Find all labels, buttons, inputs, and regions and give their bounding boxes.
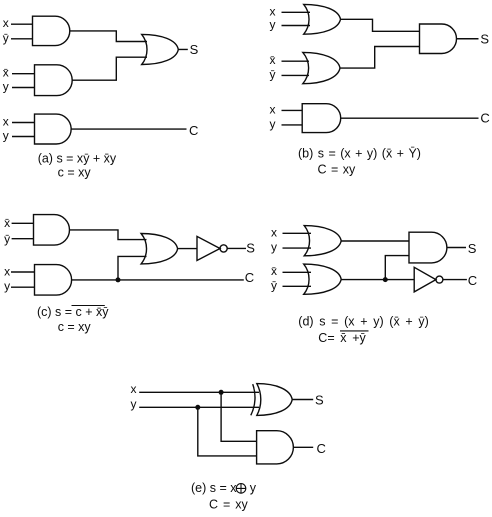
and-gate B3 bbox=[420, 24, 457, 54]
and-gate C2 bbox=[35, 265, 72, 296]
svg-text:(b) s = (x + y) (x̄ + Ȳ): (b) s = (x + y) (x̄ + Ȳ) bbox=[298, 146, 421, 160]
wire junction up to AND gate D3 bottom input bbox=[385, 256, 409, 280]
junction dot on y wire bbox=[195, 405, 200, 410]
wire x to A3 bbox=[12, 122, 35, 124]
and-gate A1 bbox=[33, 16, 70, 45]
wire E2 output to C bbox=[293, 446, 313, 448]
svg-text:C: C bbox=[317, 441, 326, 456]
svg-text:x̄: x̄ bbox=[3, 66, 9, 80]
wire C3 output to inverter C4 bbox=[178, 248, 197, 250]
wire y to B1 bbox=[282, 25, 311, 27]
wire C1 output to OR gate C3 top input bbox=[70, 230, 147, 240]
svg-text:x: x bbox=[270, 4, 276, 18]
svg-text:x: x bbox=[4, 264, 10, 278]
or-gate B2 bbox=[303, 52, 340, 83]
wire D4 output to C bbox=[443, 279, 467, 281]
svg-text:ȳ: ȳ bbox=[3, 31, 9, 45]
or-gate C3 bbox=[141, 234, 178, 264]
inverter D4 bubble bbox=[436, 276, 443, 283]
wire y to XOR gate E1 bbox=[139, 406, 259, 408]
wire x-bar to D2 bbox=[283, 271, 312, 273]
wire x to B4 bbox=[282, 109, 303, 111]
wire x junction down to AND gate E2 top input bbox=[221, 392, 257, 441]
xor-gate E1 body bbox=[257, 384, 292, 416]
wire y to A2 bbox=[12, 87, 35, 89]
svg-text:x: x bbox=[3, 115, 9, 129]
inverter C4 bubble bbox=[220, 245, 227, 252]
wire C4 output to S bbox=[227, 247, 246, 249]
svg-text:y: y bbox=[250, 481, 257, 495]
and-gate C1 bbox=[34, 215, 70, 246]
wire E1 output to S bbox=[292, 399, 313, 401]
svg-text:c = xy: c = xy bbox=[58, 320, 92, 334]
and-gate D3 bbox=[409, 232, 447, 263]
wire A1 output to OR gate A4 top input bbox=[70, 31, 147, 42]
inverter D4 bbox=[414, 267, 436, 292]
wire x to C2 bbox=[11, 271, 35, 273]
wire B4 output to C bbox=[341, 117, 479, 119]
wire B3 output to S bbox=[457, 38, 479, 40]
xor symbol circle-plus in caption e bbox=[236, 484, 246, 494]
svg-text:x: x bbox=[131, 382, 137, 396]
wire y to B4 bbox=[282, 124, 303, 126]
or-gate D1 bbox=[304, 226, 341, 256]
wire y-bar to D2 bbox=[283, 285, 312, 287]
svg-text:x̄: x̄ bbox=[271, 264, 277, 278]
junction dot on x wire bbox=[219, 390, 224, 395]
svg-text:ȳ: ȳ bbox=[4, 232, 10, 246]
junction dot on C2 output bbox=[116, 277, 121, 282]
svg-text:y: y bbox=[3, 129, 9, 143]
wire x-bar to A2 bbox=[12, 73, 35, 75]
svg-text:x: x bbox=[270, 102, 276, 116]
wire x to B1 bbox=[282, 11, 311, 13]
wire y to C2 bbox=[11, 286, 35, 288]
wire y-bar to C1 bbox=[12, 238, 34, 240]
wire x to D1 bbox=[283, 232, 312, 234]
svg-text:C: C bbox=[480, 111, 489, 126]
svg-text:x̄: x̄ bbox=[4, 216, 10, 230]
svg-text:C: C bbox=[189, 123, 198, 138]
or-gate D2 bbox=[304, 264, 342, 294]
wire y junction down to AND gate E2 bottom input bbox=[198, 407, 257, 456]
svg-text:y: y bbox=[270, 18, 276, 32]
svg-text:x: x bbox=[271, 225, 277, 239]
svg-text:y: y bbox=[3, 80, 9, 94]
or-gate B1 bbox=[304, 4, 341, 34]
svg-text:C: C bbox=[468, 273, 477, 288]
wire x to XOR gate E1 bbox=[139, 391, 259, 393]
svg-text:(e) s = x: (e) s = x bbox=[191, 481, 237, 495]
wire D1 output to AND gate D3 top input bbox=[341, 240, 409, 242]
wire A4 output to S bbox=[178, 48, 188, 50]
and-gate B4 bbox=[302, 104, 340, 133]
svg-text:x: x bbox=[3, 16, 9, 30]
svg-text:S: S bbox=[246, 241, 255, 256]
and-gate A2 bbox=[35, 65, 73, 96]
wire C2 output to C and junction bbox=[72, 279, 244, 281]
svg-text:ȳ: ȳ bbox=[271, 278, 277, 292]
and-gate E2 bbox=[257, 431, 294, 464]
overline over x + y in caption d line 2 bbox=[340, 330, 369, 332]
xor-gate E1 input arc bbox=[251, 384, 255, 415]
wire y to D1 bbox=[283, 247, 312, 249]
wire x to A1 bbox=[11, 23, 33, 25]
svg-text:c = xy: c = xy bbox=[58, 166, 92, 180]
svg-text:C = xy: C = xy bbox=[318, 162, 357, 176]
wire x-bar to C1 bbox=[12, 222, 34, 224]
svg-text:ȳ: ȳ bbox=[270, 67, 276, 81]
and-gate A3 bbox=[35, 114, 72, 144]
svg-text:y: y bbox=[270, 117, 276, 131]
svg-text:C= x̄ +ȳ: C= x̄ +ȳ bbox=[318, 331, 366, 345]
wire A3 output to C bbox=[71, 128, 186, 130]
wire y to A3 bbox=[12, 136, 35, 138]
svg-text:C: C bbox=[245, 270, 254, 285]
svg-text:S: S bbox=[315, 392, 324, 407]
wire junction up to OR gate C3 bottom input bbox=[118, 256, 147, 280]
svg-text:C = xy: C = xy bbox=[209, 497, 249, 511]
wire A2 output to OR gate A4 bottom input bbox=[72, 57, 147, 80]
wire y-bar to A1 bbox=[11, 38, 33, 40]
wire x-bar to B2 bbox=[282, 60, 310, 62]
svg-text:S: S bbox=[468, 241, 477, 256]
overline over c + xy in caption c bbox=[72, 305, 105, 307]
svg-text:y: y bbox=[131, 397, 137, 411]
wire y-bar to B2 bbox=[282, 74, 310, 76]
svg-text:y: y bbox=[4, 279, 10, 293]
wire D2 output to inverter D4 and junction bbox=[341, 279, 414, 281]
or-gate A4 bbox=[142, 34, 179, 64]
inverter C4 bbox=[197, 236, 220, 260]
wire B1 output to AND gate B3 top input bbox=[341, 19, 420, 31]
svg-text:S: S bbox=[480, 31, 489, 46]
wire D3 output to S bbox=[447, 247, 466, 249]
svg-text:y: y bbox=[271, 240, 277, 254]
svg-text:x̄: x̄ bbox=[270, 53, 276, 67]
svg-text:(c) s = c + x̄ȳ: (c) s = c + x̄ȳ bbox=[37, 305, 109, 319]
svg-text:(d) s = (x + y) (x̄ + ȳ): (d) s = (x + y) (x̄ + ȳ) bbox=[298, 314, 428, 328]
wire B2 output to AND gate B3 bottom input bbox=[340, 47, 420, 69]
junction dot on D2 output bbox=[383, 277, 388, 282]
svg-text:(a) s = xȳ + x̄y: (a) s = xȳ + x̄y bbox=[38, 151, 117, 165]
svg-text:S: S bbox=[190, 42, 199, 57]
